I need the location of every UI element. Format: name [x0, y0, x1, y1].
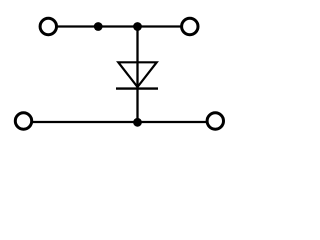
diode D1 cathode bar — [116, 87, 158, 89]
terminal circle bottom-right — [207, 113, 223, 129]
diode D1 triangle (anode) — [118, 62, 156, 87]
wire vertical branch — [136, 27, 138, 123]
junction dot bottom wire at branch — [133, 118, 142, 127]
junction dot top wire at branch — [133, 22, 142, 31]
wire top horizontal — [58, 25, 181, 27]
terminal circle top-right — [182, 18, 198, 34]
wire bottom horizontal — [33, 121, 207, 123]
terminal circle top-left — [40, 18, 56, 34]
junction dot top wire left — [94, 22, 103, 31]
terminal circle bottom-left — [15, 113, 31, 129]
